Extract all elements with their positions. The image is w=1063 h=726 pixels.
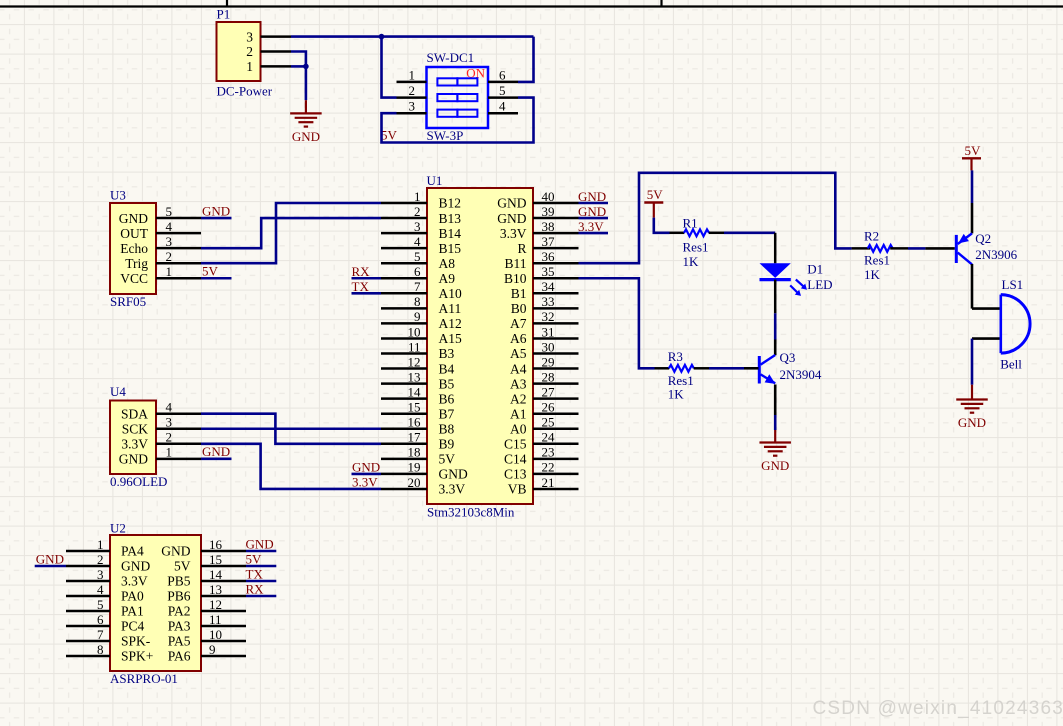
svg-text:GND: GND (246, 536, 274, 551)
svg-text:3.3V: 3.3V (439, 482, 466, 497)
svg-text:4: 4 (414, 234, 421, 249)
wire SW pin3 to 5V rail (382, 98, 534, 143)
svg-text:A6: A6 (510, 331, 527, 346)
svg-text:13: 13 (408, 369, 421, 384)
svg-text:20: 20 (408, 475, 421, 490)
wire ground node down (305, 66, 308, 100)
U4 pin numbers (166, 400, 173, 460)
svg-text:29: 29 (542, 354, 555, 369)
svg-text:11: 11 (408, 339, 421, 354)
svg-text:1K: 1K (683, 254, 700, 269)
svg-text:U1: U1 (427, 173, 443, 188)
svg-text:5V: 5V (965, 143, 982, 158)
ground stem LS1 (971, 385, 973, 400)
diode D1 LED triangle (760, 263, 791, 278)
svg-text:Bell: Bell (1000, 357, 1022, 372)
svg-text:B5: B5 (439, 376, 455, 391)
U4 pin 3 line (156, 428, 201, 431)
svg-text:GND: GND (36, 551, 64, 566)
svg-text:6: 6 (414, 264, 421, 279)
svg-text:5: 5 (166, 204, 173, 219)
svg-text:3.3V: 3.3V (352, 475, 378, 490)
resistor R1 zigzag (684, 229, 709, 236)
svg-text:3: 3 (409, 99, 416, 114)
wire U1 pin35 B10 down to R3 (579, 278, 655, 368)
speaker LS1 bottom terminal (972, 337, 1000, 340)
U2 left pin lines (66, 551, 110, 656)
svg-text:GND: GND (202, 203, 230, 218)
Q3 base pin (744, 367, 759, 370)
svg-text:A11: A11 (439, 301, 462, 316)
svg-text:C13: C13 (504, 467, 527, 482)
svg-text:SPK-: SPK- (121, 634, 151, 649)
power 5V stem near Q2 (970, 158, 972, 170)
svg-text:3: 3 (166, 234, 173, 249)
resistor R1 left lead (670, 232, 685, 235)
svg-text:A4: A4 (510, 361, 527, 376)
wire stub GND U2 pin2 (35, 565, 66, 568)
wire stub GND U2 pin16 (246, 550, 276, 553)
ground for P1 (290, 113, 322, 143)
svg-text:R2: R2 (864, 229, 879, 244)
svg-text:9: 9 (414, 309, 421, 324)
wire Q2 collector down (971, 264, 974, 309)
U3 pin 5 line (156, 217, 201, 220)
wire U4 SCK to U1 B8 (201, 427, 381, 430)
svg-text:21: 21 (542, 475, 555, 490)
resistor R1 labels (683, 215, 709, 268)
SW-DC1 pin 4 line (488, 112, 518, 115)
svg-text:A2: A2 (510, 391, 527, 406)
ground for Q3 (759, 443, 791, 474)
svg-text:PA4: PA4 (121, 544, 144, 559)
U2 left pin names (121, 544, 153, 664)
svg-text:2: 2 (97, 552, 104, 567)
P1 pin 2 line (261, 50, 292, 53)
speaker LS1 top terminal (972, 307, 1000, 310)
switch elements (437, 78, 477, 116)
svg-text:PB6: PB6 (167, 589, 191, 604)
svg-text:5: 5 (414, 249, 421, 264)
svg-text:4: 4 (166, 219, 173, 234)
svg-text:33: 33 (542, 294, 555, 309)
wire stub 5V U3 pin1 (201, 277, 232, 280)
U4 pin 4 line (156, 412, 201, 415)
svg-text:PA3: PA3 (168, 619, 191, 634)
svg-text:5: 5 (499, 83, 506, 98)
svg-text:B4: B4 (439, 361, 455, 376)
svg-text:15: 15 (408, 400, 421, 415)
svg-text:B15: B15 (439, 241, 462, 256)
U2 right pin lines (201, 551, 246, 656)
svg-text:3.3V: 3.3V (578, 219, 604, 234)
svg-text:SW-3P: SW-3P (427, 128, 464, 143)
LS1 labels (1000, 277, 1023, 372)
svg-text:5V: 5V (246, 551, 263, 566)
U3 pin 3 line (156, 247, 201, 250)
wire 5V to Q2 emitter (971, 170, 974, 203)
wire U4 3.3V to U1 pin20 (201, 444, 381, 489)
svg-text:A0: A0 (510, 421, 527, 436)
svg-text:28: 28 (542, 369, 555, 384)
P1 pin 1 line (261, 65, 292, 68)
svg-text:B14: B14 (439, 226, 462, 241)
svg-text:18: 18 (408, 445, 421, 460)
wire P1.1 to GND (291, 65, 306, 68)
svg-text:U4: U4 (110, 384, 126, 399)
svg-text:B11: B11 (504, 256, 526, 271)
wire LS1 to ground (971, 339, 974, 385)
svg-text:1: 1 (414, 189, 421, 204)
wire P1.3 to SW-DC1 pin6 net (291, 35, 534, 38)
U4 pin names (119, 406, 149, 466)
svg-text:8: 8 (97, 642, 104, 657)
svg-text:5V: 5V (174, 559, 191, 574)
ground for LS1 (956, 400, 988, 431)
svg-text:A9: A9 (439, 271, 456, 286)
svg-text:PC4: PC4 (121, 619, 145, 634)
svg-text:SPK+: SPK+ (121, 649, 153, 664)
SW-DC1 pin 2 line (397, 96, 427, 99)
svg-text:Res1: Res1 (864, 253, 890, 268)
svg-text:A10: A10 (439, 286, 462, 301)
svg-text:SDA: SDA (121, 406, 148, 421)
U2 right pin numbers 16-9 (209, 537, 223, 657)
U3 pin numbers (166, 204, 173, 279)
ground stem Q3 (774, 430, 776, 443)
wire stub GND pin40 (579, 202, 609, 205)
U3 pin 2 line (156, 262, 201, 265)
svg-text:38: 38 (542, 219, 555, 234)
svg-text:Res1: Res1 (683, 239, 709, 254)
svg-text:5V: 5V (647, 187, 664, 202)
svg-text:3: 3 (414, 219, 421, 234)
svg-text:6: 6 (499, 67, 506, 82)
wire stub TX (352, 292, 382, 295)
svg-text:GND: GND (352, 459, 380, 474)
svg-text:1: 1 (166, 264, 173, 279)
svg-text:CSDN @weixin_41024363: CSDN @weixin_41024363 (813, 698, 1063, 719)
sheet border zone tick left (226, 0, 228, 7)
junction P1 ground node (303, 64, 309, 70)
svg-text:4: 4 (166, 400, 173, 415)
resistor R3 labels (668, 349, 694, 402)
wire stub GND pin19 (352, 473, 382, 476)
U3 pin 1 line (156, 277, 201, 280)
diode D1 emission arrows (790, 280, 807, 296)
svg-text:3: 3 (166, 415, 173, 430)
svg-text:GND: GND (202, 444, 230, 459)
wire R1 to LED anode (724, 232, 775, 235)
wire stub 5V U2 pin15 (246, 565, 276, 568)
svg-text:Q2: Q2 (975, 231, 991, 246)
resistor R3 left lead (655, 367, 670, 370)
resistor R3 right lead (694, 367, 709, 370)
svg-text:1: 1 (246, 59, 253, 74)
sheet border top edge (0, 5, 1063, 7)
svg-text:B10: B10 (504, 271, 527, 286)
svg-text:0.96OLED: 0.96OLED (110, 474, 167, 489)
module U2 body (110, 535, 201, 671)
svg-text:B1: B1 (511, 286, 527, 301)
power 5V near Q2 (962, 143, 981, 159)
svg-text:B0: B0 (511, 301, 527, 316)
svg-text:GND: GND (958, 415, 986, 430)
svg-text:GND: GND (497, 196, 526, 211)
svg-text:14: 14 (209, 567, 223, 582)
wire Q3 emitter to ground (774, 415, 777, 430)
svg-text:GND: GND (119, 452, 148, 467)
Q2 base pin (925, 247, 954, 250)
svg-text:2: 2 (246, 44, 253, 59)
svg-text:2: 2 (166, 249, 173, 264)
Q3 labels (780, 350, 822, 382)
wire stub TX U2 pin14 (246, 580, 276, 583)
svg-text:PA2: PA2 (168, 604, 191, 619)
svg-text:2: 2 (166, 430, 173, 445)
svg-text:D1: D1 (807, 261, 823, 276)
svg-text:PB5: PB5 (167, 574, 191, 589)
svg-text:9: 9 (209, 642, 216, 657)
display U4 body (110, 401, 156, 475)
svg-text:R: R (517, 241, 526, 256)
svg-text:34: 34 (542, 279, 556, 294)
svg-text:A15: A15 (439, 331, 462, 346)
svg-text:5V: 5V (202, 264, 219, 279)
U1 left pin names (439, 196, 468, 497)
svg-text:R3: R3 (668, 349, 683, 364)
ground stem P1 (305, 100, 307, 113)
resistor R2 zigzag (868, 245, 893, 252)
wire stub RX U2 pin13 (246, 595, 276, 598)
svg-text:RX: RX (352, 264, 371, 279)
Q3 emitter pin down (774, 385, 777, 416)
svg-text:3.3V: 3.3V (121, 574, 148, 589)
svg-text:3.3V: 3.3V (500, 226, 527, 241)
svg-text:ASRPRO-01: ASRPRO-01 (110, 671, 178, 686)
U1 right pin numbers 40-21 (542, 189, 556, 490)
SW-DC1 pin 3 line (397, 112, 427, 115)
wire R3 to Q3 base (709, 367, 744, 370)
svg-text:A8: A8 (439, 256, 456, 271)
svg-text:GND: GND (578, 204, 606, 219)
wire 5V to R1 (654, 218, 670, 233)
MCU U1 body (427, 188, 533, 504)
svg-text:16: 16 (408, 415, 422, 430)
Q3 collector pin (774, 340, 777, 356)
svg-text:PA1: PA1 (121, 604, 144, 619)
wire stub GND U4 pin1 (201, 458, 232, 461)
wire SW net down right side to pin6 (518, 37, 534, 82)
wire junction down to SW-DC1 pin2 (382, 37, 397, 98)
svg-text:25: 25 (542, 415, 555, 430)
svg-text:24: 24 (542, 430, 556, 445)
wire U3 Echo to U1 B13 (201, 218, 381, 248)
resistor R2 left lead (852, 247, 871, 250)
svg-text:B13: B13 (439, 211, 462, 226)
U4 pin 1 line (156, 458, 201, 461)
svg-text:PA0: PA0 (121, 589, 144, 604)
U2 right pin names (161, 544, 191, 664)
svg-text:U2: U2 (110, 521, 126, 536)
svg-text:B9: B9 (439, 437, 455, 452)
resistor R1 right lead (709, 232, 724, 235)
svg-text:Echo: Echo (120, 241, 148, 256)
P1 pin 3 line (261, 35, 292, 38)
svg-text:GND: GND (161, 544, 190, 559)
svg-text:30: 30 (542, 339, 555, 354)
svg-text:10: 10 (408, 324, 421, 339)
junction on P1.3 net (379, 34, 385, 40)
svg-text:40: 40 (542, 189, 555, 204)
svg-text:Q3: Q3 (780, 350, 796, 365)
wire stub RX (352, 277, 382, 280)
svg-text:A12: A12 (439, 316, 462, 331)
resistor R2 labels (864, 229, 890, 282)
svg-text:37: 37 (542, 234, 556, 249)
svg-text:1: 1 (97, 537, 104, 552)
Q2 emitter pin (971, 203, 974, 233)
svg-text:RX: RX (246, 581, 265, 596)
diode D1 labels (807, 261, 832, 292)
sheet border zone tick right (660, 0, 662, 7)
svg-text:U3: U3 (110, 188, 126, 203)
switch SW-DC1 body (427, 67, 489, 128)
resistor R3 zigzag (669, 365, 694, 372)
svg-text:GND: GND (497, 211, 526, 226)
svg-text:GND: GND (578, 189, 606, 204)
transistor Q3 2N3904 (759, 355, 775, 384)
svg-text:27: 27 (542, 384, 556, 399)
LED D1 anode pin (774, 233, 777, 263)
svg-text:R1: R1 (683, 215, 698, 230)
svg-text:1K: 1K (668, 386, 685, 401)
LED cathode pin down (774, 280, 777, 314)
SW-DC1 pin 1 line (397, 81, 427, 84)
svg-text:2N3904: 2N3904 (780, 367, 822, 382)
svg-text:1K: 1K (864, 267, 881, 282)
sensor U3 body (110, 203, 156, 294)
svg-text:3: 3 (97, 567, 104, 582)
svg-text:11: 11 (209, 612, 222, 627)
U1 left pin numbers 1-20 (408, 189, 422, 490)
svg-text:32: 32 (542, 309, 555, 324)
svg-text:6: 6 (97, 612, 104, 627)
svg-text:DC-Power: DC-Power (217, 84, 273, 99)
SW-DC1 pin 6 line (488, 81, 518, 84)
svg-text:14: 14 (408, 384, 422, 399)
svg-text:22: 22 (542, 460, 555, 475)
wire P1.2 to GND (291, 52, 306, 67)
svg-text:36: 36 (542, 249, 556, 264)
svg-text:7: 7 (414, 279, 421, 294)
svg-text:B3: B3 (439, 346, 455, 361)
svg-text:GND: GND (761, 458, 789, 473)
svg-text:5V: 5V (381, 127, 398, 142)
svg-text:8: 8 (414, 294, 421, 309)
svg-text:10: 10 (209, 627, 222, 642)
svg-text:35: 35 (542, 264, 555, 279)
svg-text:31: 31 (542, 324, 555, 339)
svg-text:26: 26 (542, 400, 556, 415)
U3 pin names (119, 211, 149, 286)
resistor R2 right lead (890, 247, 908, 250)
wire stub 3.3V pin38 (579, 232, 609, 235)
power 5V near R1 (644, 187, 663, 203)
SW-DC1 pin numbers left (409, 67, 416, 113)
svg-text:GND: GND (121, 559, 150, 574)
svg-text:3: 3 (246, 29, 253, 44)
svg-text:PA5: PA5 (168, 634, 191, 649)
svg-text:GND: GND (119, 211, 148, 226)
wire stub GND U3 pin5 (201, 217, 232, 220)
svg-text:GND: GND (292, 129, 320, 144)
diode D1 cathode bar (760, 278, 791, 281)
connector P1 body (217, 22, 261, 81)
svg-text:C14: C14 (504, 452, 527, 467)
Q2 labels (975, 231, 1017, 262)
svg-text:2: 2 (409, 83, 416, 98)
U1 right pin lines 40-21 (533, 203, 579, 489)
svg-text:16: 16 (209, 537, 223, 552)
svg-text:7: 7 (97, 627, 104, 642)
svg-text:A7: A7 (510, 316, 527, 331)
svg-text:B12: B12 (439, 196, 462, 211)
svg-text:P1: P1 (217, 7, 231, 22)
svg-text:2: 2 (414, 204, 421, 219)
svg-text:3.3V: 3.3V (121, 437, 148, 452)
svg-text:19: 19 (408, 460, 421, 475)
svg-text:LED: LED (807, 277, 832, 292)
svg-text:B6: B6 (439, 391, 455, 406)
svg-text:1: 1 (409, 67, 416, 82)
transistor Q2 2N3906 (956, 233, 972, 264)
svg-text:4: 4 (499, 99, 506, 114)
svg-text:A5: A5 (510, 346, 527, 361)
svg-text:TX: TX (352, 279, 370, 294)
svg-text:B8: B8 (439, 421, 455, 436)
U1 left pin lines 1-20 (381, 203, 427, 489)
U3 pin 4 line (156, 232, 201, 235)
svg-text:TX: TX (246, 566, 264, 581)
U1 right pin names (497, 196, 527, 497)
wire LED to Q3 collector (774, 313, 777, 339)
SW-DC1 pin 5 line (488, 96, 518, 99)
wire U4 SDA to U1 B9 (201, 414, 381, 444)
wire R2 to Q2 base (908, 247, 925, 250)
svg-text:5: 5 (97, 597, 104, 612)
svg-text:23: 23 (542, 445, 555, 460)
svg-text:4: 4 (97, 582, 104, 597)
svg-text:OUT: OUT (120, 226, 148, 241)
svg-text:SCK: SCK (122, 421, 149, 436)
svg-text:5V: 5V (439, 452, 456, 467)
svg-text:GND: GND (439, 467, 468, 482)
svg-text:A3: A3 (510, 376, 527, 391)
svg-text:1: 1 (166, 445, 173, 460)
svg-text:LS1: LS1 (1002, 277, 1024, 292)
svg-text:39: 39 (542, 204, 555, 219)
speaker LS1 symbol (1001, 295, 1030, 354)
wire stub GND pin39 (579, 217, 609, 220)
svg-text:13: 13 (209, 582, 222, 597)
svg-text:12: 12 (209, 597, 222, 612)
svg-text:SW-DC1: SW-DC1 (427, 50, 475, 65)
svg-text:17: 17 (408, 430, 422, 445)
svg-text:2N3906: 2N3906 (975, 247, 1017, 262)
SW-DC1 pin numbers right (499, 67, 506, 113)
wire U3 Trig to U1 B12 (201, 203, 381, 263)
